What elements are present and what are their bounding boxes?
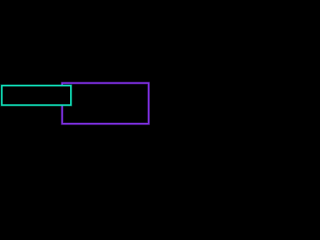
purple rectangle	[62, 83, 148, 124]
teal rectangle halo	[2, 86, 71, 105]
teal rectangle	[2, 86, 71, 105]
purple rectangle halo	[62, 83, 148, 124]
